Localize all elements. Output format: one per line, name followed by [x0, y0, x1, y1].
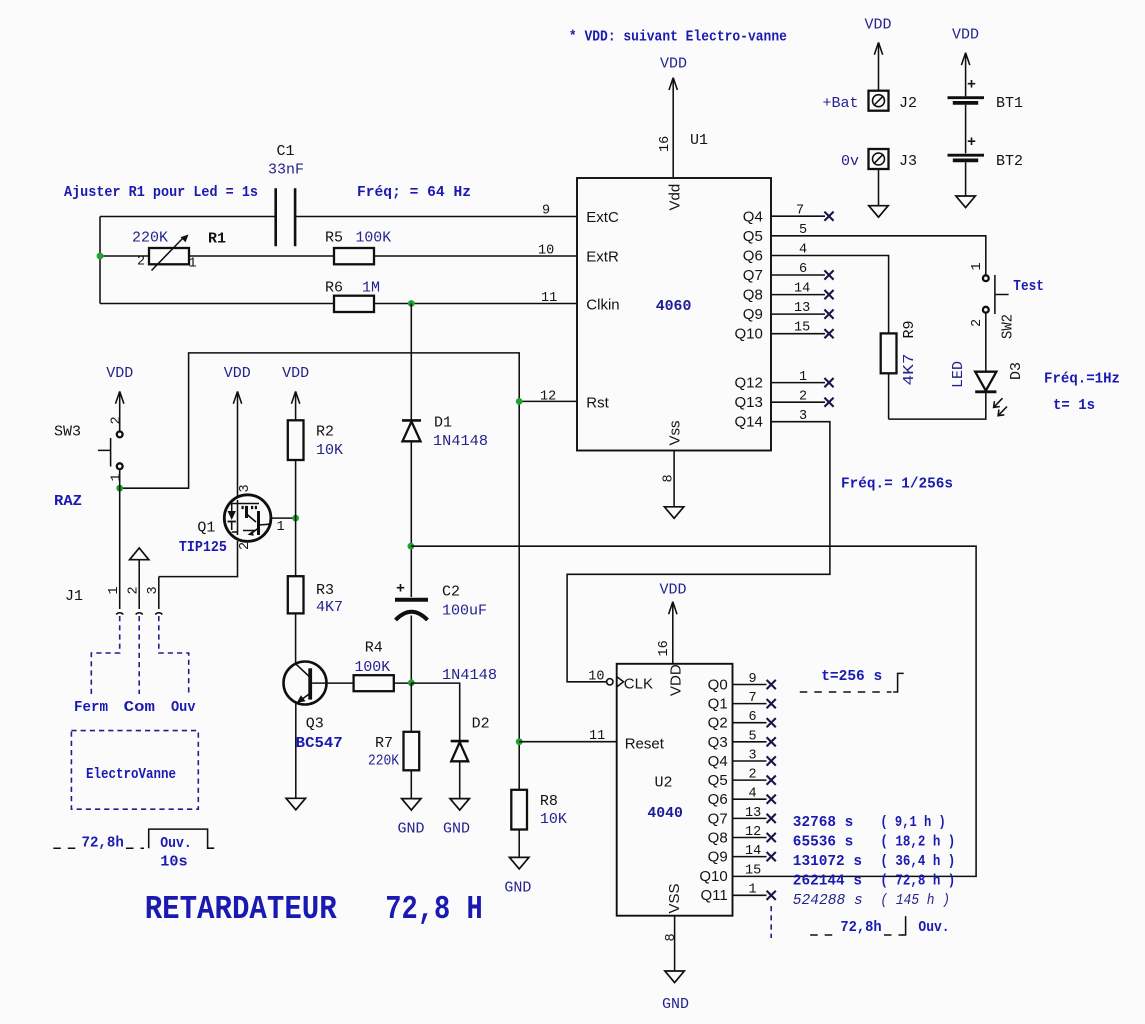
svg-text:1: 1	[799, 370, 807, 385]
svg-text:1M: 1M	[362, 280, 380, 297]
wire D1 to C2 node	[410, 441, 412, 597]
wire ExtC top	[100, 216, 577, 218]
svg-text:7: 7	[796, 204, 804, 219]
transistor Q1 TIP125	[179, 484, 285, 556]
svg-text:Q1: Q1	[708, 696, 728, 713]
op-amp U1 4060 counter box	[577, 132, 771, 451]
wire SW3 to J1 pin1	[119, 469, 121, 609]
svg-text:10s: 10s	[160, 854, 187, 871]
svg-text:VDD: VDD	[865, 17, 892, 34]
node R1 left junction	[97, 253, 104, 260]
svg-text:7: 7	[749, 691, 757, 706]
svg-text:72,8 H: 72,8 H	[385, 891, 483, 928]
svg-text:CLK: CLK	[624, 676, 653, 693]
svg-text:BC547: BC547	[296, 735, 343, 752]
svg-text:VSS: VSS	[666, 883, 683, 913]
dashed lead Q11	[770, 906, 772, 938]
svg-text:Ferm: Ferm	[74, 699, 108, 716]
svg-text:R9: R9	[901, 320, 918, 338]
node RAZ junction	[116, 485, 123, 492]
svg-text:VDD: VDD	[224, 365, 251, 382]
ground J3	[869, 169, 888, 217]
svg-text:R6: R6	[325, 280, 343, 297]
svg-text:Fréq; = 64 Hz: Fréq; = 64 Hz	[357, 184, 471, 201]
svg-text:GND: GND	[662, 996, 689, 1013]
svg-text:( 36,4 h ): ( 36,4 h )	[880, 853, 955, 870]
node Rst junction	[516, 398, 523, 405]
svg-text:Q5: Q5	[743, 228, 763, 245]
connector J2 +Bat	[823, 91, 918, 112]
wire R6 row	[100, 303, 577, 305]
no-connect X Q7	[824, 270, 833, 279]
svg-text:524288 s: 524288 s	[793, 892, 863, 909]
no-connect X Q0	[767, 680, 776, 689]
svg-text:4K7: 4K7	[316, 599, 343, 616]
svg-text:BT1: BT1	[996, 95, 1023, 112]
svg-text:65536 s: 65536 s	[793, 834, 854, 851]
svg-text:12: 12	[540, 390, 556, 405]
svg-text:VDD: VDD	[660, 582, 687, 599]
svg-text:Q4: Q4	[743, 209, 763, 226]
svg-text:J1: J1	[65, 588, 83, 605]
svg-text:Fréq.=1Hz: Fréq.=1Hz	[1044, 371, 1120, 388]
svg-text:32768 s: 32768 s	[793, 814, 854, 831]
svg-text:3: 3	[749, 749, 757, 764]
power VDD U2 pin16	[657, 582, 687, 664]
svg-text:* VDD: suivant Electro-vanne: * VDD: suivant Electro-vanne	[569, 29, 787, 46]
svg-text:R2: R2	[316, 424, 334, 441]
no-connect X Q8	[824, 290, 833, 299]
LED D3	[950, 361, 1025, 416]
svg-text:Q1: Q1	[197, 520, 215, 537]
svg-text:R1: R1	[208, 231, 226, 248]
svg-text:Q11: Q11	[700, 887, 727, 904]
battery BT2	[948, 134, 1024, 170]
svg-text:1: 1	[277, 520, 285, 535]
no-connect X Q6	[767, 795, 776, 804]
power VDD R2	[282, 365, 309, 420]
svg-text:ExtR: ExtR	[586, 249, 619, 266]
svg-text:D3: D3	[1008, 362, 1025, 380]
diode D2 1N4148	[442, 667, 497, 799]
svg-text:15: 15	[745, 863, 761, 878]
svg-text:72,8h: 72,8h	[82, 835, 124, 852]
waveform 72,8h Ouv 10s	[53, 829, 214, 870]
svg-text:6: 6	[799, 262, 807, 277]
wire RAZ net	[120, 353, 520, 790]
node Clkin junction	[408, 300, 415, 307]
diode D1 1N4148	[402, 304, 488, 451]
svg-text:Q7: Q7	[743, 267, 763, 284]
node D1 C2 feedback junction	[408, 543, 415, 550]
svg-text:0v: 0v	[841, 153, 859, 170]
svg-text:13: 13	[794, 301, 810, 316]
note: t=256 s with edge	[800, 668, 904, 692]
svg-text:2: 2	[970, 319, 985, 327]
svg-text:Q3: Q3	[708, 734, 728, 751]
transistor Q3 BC547	[284, 662, 343, 753]
svg-text:LED: LED	[950, 361, 967, 388]
ground U2 VSS pin8	[662, 916, 689, 1013]
svg-text:J2: J2	[899, 95, 917, 112]
svg-text:16: 16	[657, 640, 672, 656]
svg-text:Test: Test	[1013, 278, 1044, 295]
svg-text:RETARDATEUR: RETARDATEUR	[145, 891, 337, 928]
svg-text:220K: 220K	[132, 230, 168, 247]
capacitor C2 100uF	[395, 581, 487, 621]
svg-text:Ajuster R1 pour Led = 1s: Ajuster R1 pour Led = 1s	[64, 184, 258, 201]
svg-text:5: 5	[749, 729, 757, 744]
connector J3 0v	[841, 149, 917, 170]
svg-text:1: 1	[749, 882, 757, 897]
svg-text:Q4: Q4	[708, 753, 728, 770]
wire left vertical	[99, 217, 101, 304]
resistor R1 (potentiometer 220K)	[132, 230, 226, 272]
ground BT2	[956, 162, 975, 207]
node Reset U2 junction	[516, 738, 523, 745]
svg-text:14: 14	[745, 844, 761, 859]
svg-text:100K: 100K	[355, 659, 391, 676]
svg-text:10: 10	[588, 670, 604, 685]
svg-text:Q6: Q6	[708, 791, 728, 808]
wire BT1 to BT2	[965, 105, 967, 154]
power VDD U1 pin16	[660, 56, 687, 179]
svg-text:( 145 h ): ( 145 h )	[880, 892, 950, 909]
svg-text:15: 15	[794, 321, 810, 336]
svg-text:D2: D2	[472, 716, 490, 733]
node Q1 base junction	[292, 515, 299, 522]
wire Q6 to R9	[771, 256, 889, 334]
svg-text:t=256 s: t=256 s	[821, 668, 882, 685]
no-connect X Q9	[824, 310, 833, 319]
svg-text:Q3: Q3	[306, 716, 324, 733]
svg-text:Q8: Q8	[708, 830, 728, 847]
svg-text:1: 1	[970, 262, 985, 270]
svg-text:GND: GND	[398, 821, 425, 838]
no-connect X Q12	[824, 378, 833, 387]
svg-text:1: 1	[110, 473, 125, 481]
svg-text:10K: 10K	[540, 811, 567, 828]
svg-text:VDD: VDD	[668, 664, 685, 696]
wire J1 pin3 to Q1 collector	[159, 541, 238, 609]
resistor R2 10K	[288, 420, 343, 460]
svg-text:1: 1	[107, 586, 122, 594]
svg-text:BT2: BT2	[996, 153, 1023, 170]
svg-text:SW3: SW3	[54, 424, 81, 441]
svg-text:Q9: Q9	[708, 849, 728, 866]
svg-text:Q6: Q6	[743, 248, 763, 265]
svg-text:( 72,8 h ): ( 72,8 h )	[880, 873, 955, 890]
svg-text:+: +	[967, 77, 976, 94]
svg-text:Q0: Q0	[708, 677, 728, 694]
svg-text:SW2: SW2	[1000, 314, 1017, 339]
svg-text:Vdd: Vdd	[667, 184, 684, 211]
no-connect X Q4	[824, 212, 833, 221]
wire Q3 emitter to gnd	[295, 703, 297, 799]
svg-text:U2: U2	[655, 775, 673, 792]
power arrow J1 pin2	[130, 548, 149, 609]
svg-text:4060: 4060	[656, 298, 692, 315]
svg-text:Q8: Q8	[743, 287, 763, 304]
ElectroVanne dashed box	[71, 731, 198, 810]
ground U1 Vss pin8	[662, 451, 684, 519]
svg-text:C2: C2	[442, 584, 460, 601]
svg-text:VDD: VDD	[952, 27, 979, 44]
svg-text:Q10: Q10	[699, 868, 727, 885]
power VDD J2	[865, 17, 892, 91]
svg-text:11: 11	[589, 729, 605, 744]
op-amp U2 4040 counter box	[607, 664, 733, 916]
svg-text:9: 9	[749, 672, 757, 687]
svg-text:2: 2	[137, 255, 145, 270]
svg-text:VDD: VDD	[106, 365, 133, 382]
svg-text:Q12: Q12	[734, 375, 762, 392]
capacitor C1	[268, 143, 304, 246]
svg-text:262144 s: 262144 s	[793, 873, 862, 890]
battery BT1	[948, 77, 1024, 113]
svg-text:11: 11	[541, 291, 557, 306]
svg-text:Ouv.: Ouv.	[160, 835, 192, 852]
svg-text:Ouv.: Ouv.	[918, 919, 949, 936]
title RETARDATEUR 72,8 H	[145, 891, 483, 928]
svg-text:Fréq.= 1/256s: Fréq.= 1/256s	[841, 476, 953, 493]
power VDD SW3	[106, 365, 133, 432]
wire Q5 to SW2	[771, 236, 986, 275]
dashed lead J1 pin2 Com	[138, 616, 140, 694]
no-connect X Q10	[824, 329, 833, 338]
svg-text:+: +	[967, 134, 976, 151]
svg-text:1: 1	[189, 257, 197, 272]
node R4 C2 R7 junction	[408, 679, 415, 686]
no-connect X Q3	[767, 737, 776, 746]
ground R8	[504, 857, 531, 896]
svg-text:Q14: Q14	[734, 414, 762, 431]
svg-text:10: 10	[538, 244, 554, 259]
svg-text:100K: 100K	[356, 230, 392, 247]
svg-text:TIP125: TIP125	[179, 539, 227, 556]
no-connect X Q9	[767, 852, 776, 861]
svg-text:C1: C1	[277, 143, 295, 160]
resistor R7 220K	[368, 683, 419, 799]
svg-text:12: 12	[745, 825, 761, 840]
svg-text:Clkin: Clkin	[586, 297, 619, 314]
wire Reset U2 branch	[519, 741, 617, 743]
ground R7	[398, 799, 425, 838]
pin stubs U2 outputs	[733, 685, 767, 896]
svg-text:ExtC: ExtC	[586, 209, 619, 226]
svg-text:8: 8	[662, 474, 677, 482]
no-connect X Q1	[767, 699, 776, 708]
svg-text:16: 16	[658, 136, 673, 152]
resistor R3 4K7	[288, 576, 343, 616]
no-connect X Q4	[767, 756, 776, 765]
no-connect X Q7	[767, 814, 776, 823]
switch SW2 Test	[970, 262, 1044, 339]
svg-text:Q5: Q5	[708, 772, 728, 789]
no-connect X Q2	[767, 718, 776, 727]
resistor R4 100K	[354, 640, 394, 692]
resistor R5 100K	[325, 230, 391, 265]
svg-text:GND: GND	[443, 821, 470, 838]
svg-text:t= 1s: t= 1s	[1053, 397, 1095, 414]
svg-text:Vss: Vss	[667, 420, 684, 445]
wire C2 to R4 node	[410, 616, 412, 684]
svg-text:Ouv: Ouv	[171, 699, 196, 716]
svg-text:14: 14	[794, 282, 810, 297]
svg-text:Rst: Rst	[586, 395, 609, 412]
wire R1 row	[100, 255, 577, 257]
resistor R9 4K7	[881, 320, 918, 419]
svg-text:D1: D1	[434, 415, 452, 432]
svg-text:RAZ: RAZ	[54, 493, 82, 510]
svg-text:GND: GND	[504, 880, 531, 897]
svg-text:Q10: Q10	[734, 326, 762, 343]
svg-text:ElectroVanne: ElectroVanne	[86, 766, 176, 783]
wire Q1 base	[271, 517, 296, 519]
svg-text:R7: R7	[375, 735, 393, 752]
svg-text:72,8h: 72,8h	[840, 919, 881, 936]
pin stubs U1 right outputs	[771, 216, 825, 402]
svg-text:4K7: 4K7	[901, 354, 918, 386]
svg-text:R8: R8	[540, 793, 558, 810]
svg-text:1N4148: 1N4148	[442, 667, 497, 684]
connector J1	[65, 586, 162, 614]
svg-text:R4: R4	[365, 640, 383, 657]
svg-text:2: 2	[238, 542, 253, 550]
no-connect X Q13	[824, 398, 833, 407]
svg-text:10K: 10K	[316, 442, 343, 459]
wire LED bottom loop	[889, 392, 986, 419]
svg-text:Reset: Reset	[625, 736, 665, 753]
no-connect X Q11	[767, 891, 776, 900]
svg-text:Q2: Q2	[708, 715, 728, 732]
svg-text:2: 2	[110, 416, 125, 424]
svg-text:( 18,2 h ): ( 18,2 h )	[880, 834, 955, 851]
no-connect X Q5	[767, 776, 776, 785]
svg-text:Com: Com	[124, 699, 155, 716]
wire feedback D1 node to Q10	[411, 546, 976, 876]
wire R4 to node	[394, 682, 412, 684]
svg-text:VDD: VDD	[660, 56, 687, 73]
svg-text:8: 8	[664, 933, 679, 941]
ground Q3	[286, 798, 305, 810]
wire node to D2	[411, 683, 459, 741]
power VDD BT1	[952, 27, 979, 97]
wire Q3 base to R4	[312, 682, 354, 684]
svg-text:+Bat: +Bat	[823, 95, 859, 112]
switch SW3 RAZ	[54, 416, 125, 481]
svg-text:U1: U1	[690, 132, 708, 149]
svg-text:6: 6	[749, 710, 757, 725]
ground D2	[443, 799, 470, 838]
dashed lead J1 pin3 Ouv	[159, 616, 189, 694]
svg-text:Q7: Q7	[708, 810, 728, 827]
power VDD Q1	[224, 365, 251, 497]
svg-text:9: 9	[542, 204, 550, 219]
waveform 72,8h Ouv bottom right	[810, 916, 949, 936]
svg-text:VDD: VDD	[282, 365, 309, 382]
svg-text:R3: R3	[316, 582, 334, 599]
svg-text:Q13: Q13	[734, 394, 762, 411]
svg-text:4040: 4040	[647, 805, 683, 822]
svg-text:131072 s: 131072 s	[793, 853, 862, 870]
wire R3 to Q3	[295, 613, 297, 664]
wire SW2 to LED	[985, 313, 987, 372]
resistor R6 1M	[325, 280, 380, 313]
svg-text:3: 3	[238, 484, 253, 492]
svg-text:+: +	[396, 581, 405, 598]
resistor R8 10K	[511, 790, 567, 858]
svg-text:33nF: 33nF	[268, 162, 304, 179]
svg-text:220K: 220K	[368, 753, 399, 770]
svg-text:4: 4	[749, 787, 757, 802]
svg-text:J3: J3	[899, 153, 917, 170]
svg-text:Q9: Q9	[743, 306, 763, 323]
svg-text:R5: R5	[325, 230, 343, 247]
svg-text:2: 2	[749, 768, 757, 783]
svg-text:13: 13	[745, 806, 761, 821]
svg-text:1N4148: 1N4148	[433, 433, 488, 450]
wire Q14 to U2 CLK	[567, 422, 830, 682]
wire Rst branch	[519, 400, 577, 402]
dashed lead J1 pin1 Ferm	[91, 616, 119, 694]
svg-text:2: 2	[799, 390, 807, 405]
svg-text:( 9,1 h ): ( 9,1 h )	[880, 814, 945, 831]
svg-text:100uF: 100uF	[442, 603, 487, 620]
wire R2 to R3	[295, 460, 297, 576]
no-connect X Q8	[767, 833, 776, 842]
